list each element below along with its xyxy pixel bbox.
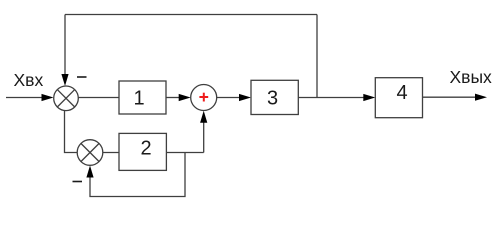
- summer 3 (circle with X, lower): [77, 140, 103, 166]
- wire: block 2 output to vertical riser: [166, 152, 203, 154]
- wire: block 3 to block 4: [298, 97, 365, 99]
- wire: summer3 to block 2: [103, 152, 119, 154]
- wire: bottom loop down-left-up: [90, 153, 185, 197]
- wire: summer1 down to summer3: [65, 110, 78, 152]
- arrowhead: loop into summer 3 bottom: [86, 166, 93, 178]
- svg-text:3: 3: [267, 87, 278, 109]
- svg-text:Хвх: Хвх: [14, 70, 44, 90]
- arrowhead: into summer 2 left: [179, 94, 191, 101]
- wire: top feedback horizontal: [65, 14, 317, 16]
- summer 1 (circle with X): [54, 86, 79, 111]
- block 4: [375, 78, 422, 118]
- svg-text:2: 2: [140, 138, 151, 160]
- arrowhead: into block 4: [363, 94, 375, 101]
- block 1: [119, 81, 166, 114]
- svg-text:4: 4: [396, 82, 407, 104]
- wire: summer 2 to block 3: [217, 97, 241, 99]
- block 2: [119, 133, 166, 170]
- minus sign at summer 3: [73, 181, 83, 183]
- block 3: [251, 80, 298, 114]
- arrowhead: into summer 1 left: [42, 94, 54, 101]
- wire: top feedback drop into summer 1: [64, 15, 66, 77]
- wire: block 1 to summer 2: [166, 97, 181, 99]
- wire: input line: [6, 97, 44, 99]
- svg-text:Хвых: Хвых: [450, 67, 493, 87]
- summer 2 (circle with red plus): [191, 85, 217, 111]
- wire: summer1 to block 1: [78, 97, 119, 99]
- arrowhead: feedback into summer 1 top: [61, 74, 68, 86]
- svg-text:1: 1: [133, 88, 144, 110]
- arrowhead: output end: [475, 94, 487, 101]
- minus sign at summer 1: [77, 76, 87, 78]
- arrowhead: into block 3: [239, 94, 251, 101]
- wire: riser up into summer 2: [203, 121, 205, 153]
- wire: top feedback vertical tap: [316, 15, 318, 98]
- wire: block 4 output: [423, 96, 478, 98]
- arrowhead: into summer 2 bottom: [200, 111, 207, 123]
